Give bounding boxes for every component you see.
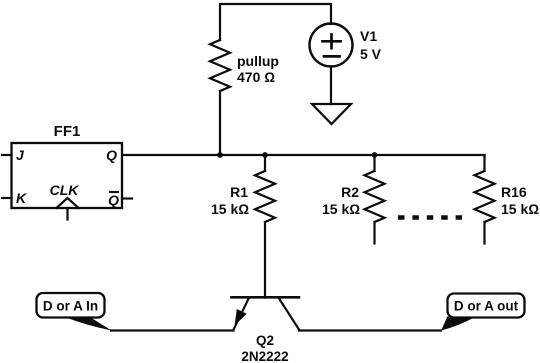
wire R1 to Q2 collector	[264, 222, 266, 298]
svg-text:2N2222: 2N2222	[241, 349, 288, 363]
net label D or A out	[441, 294, 524, 331]
wire emitter to In flag	[111, 329, 234, 331]
svg-text:5 V: 5 V	[360, 46, 382, 62]
label Q2	[256, 333, 274, 348]
svg-text:R16: R16	[501, 184, 527, 200]
resistor pullup	[210, 40, 230, 91]
svg-text:FF1: FF1	[54, 123, 81, 140]
svg-text:D or A In: D or A In	[43, 299, 98, 314]
svg-text:J: J	[16, 147, 25, 163]
wire collector leg to out flag	[299, 329, 441, 331]
resistor R16	[475, 155, 495, 244]
flip-flop FF1 box	[12, 143, 123, 208]
label V1	[360, 28, 377, 44]
label R2	[341, 184, 359, 200]
resistor R2	[365, 155, 385, 244]
pin J	[2, 147, 25, 163]
svg-text:Q: Q	[106, 147, 117, 163]
label FF1	[54, 123, 81, 140]
junction R1-bus	[262, 152, 268, 158]
svg-text:pullup: pullup	[237, 53, 279, 69]
wire V1 to ground	[330, 67, 332, 105]
svg-text:V1: V1	[360, 28, 377, 44]
net label D or A In	[37, 293, 112, 331]
pin K	[2, 190, 27, 206]
label R16	[501, 184, 527, 200]
svg-text:15 kΩ: 15 kΩ	[211, 201, 249, 217]
svg-text:470 Ω: 470 Ω	[237, 69, 275, 85]
svg-text:D or A out: D or A out	[454, 299, 519, 314]
label R2 value 15 kΩ	[322, 201, 360, 217]
svg-text:CLK: CLK	[50, 182, 80, 198]
junction R2-bus	[372, 152, 378, 158]
label Q2 value 2N2222	[241, 349, 288, 363]
wire pullup bottom lead to bus	[219, 91, 221, 155]
wire bus from Q output to R16	[122, 154, 485, 156]
label R1 value 15 kΩ	[211, 201, 249, 217]
label pullup value 470 Ω	[237, 69, 275, 85]
wire top rail from pullup to V1	[220, 4, 331, 40]
svg-text:15 kΩ: 15 kΩ	[322, 201, 360, 217]
dashed continuation between R2 and R16	[398, 215, 462, 220]
svg-text:15 kΩ: 15 kΩ	[501, 201, 539, 217]
svg-text:R2: R2	[341, 184, 359, 200]
label pullup name	[237, 53, 279, 69]
pin Q	[106, 147, 117, 163]
svg-text:R1: R1	[230, 184, 248, 200]
voltage source V1	[310, 24, 353, 67]
pin Qbar	[108, 192, 132, 208]
label R1	[230, 184, 248, 200]
pin CLK edge-trigger triangle	[50, 182, 80, 220]
junction pullup-bus	[217, 152, 223, 158]
svg-text:Q: Q	[108, 192, 119, 208]
label V1 value 5 V	[360, 46, 382, 62]
transistor Q2	[232, 297, 300, 329]
label R16 value 15 kΩ	[501, 201, 539, 217]
ground	[312, 104, 351, 124]
svg-text:K: K	[16, 190, 27, 206]
resistor R1	[255, 155, 275, 222]
svg-text:Q2: Q2	[256, 333, 274, 348]
